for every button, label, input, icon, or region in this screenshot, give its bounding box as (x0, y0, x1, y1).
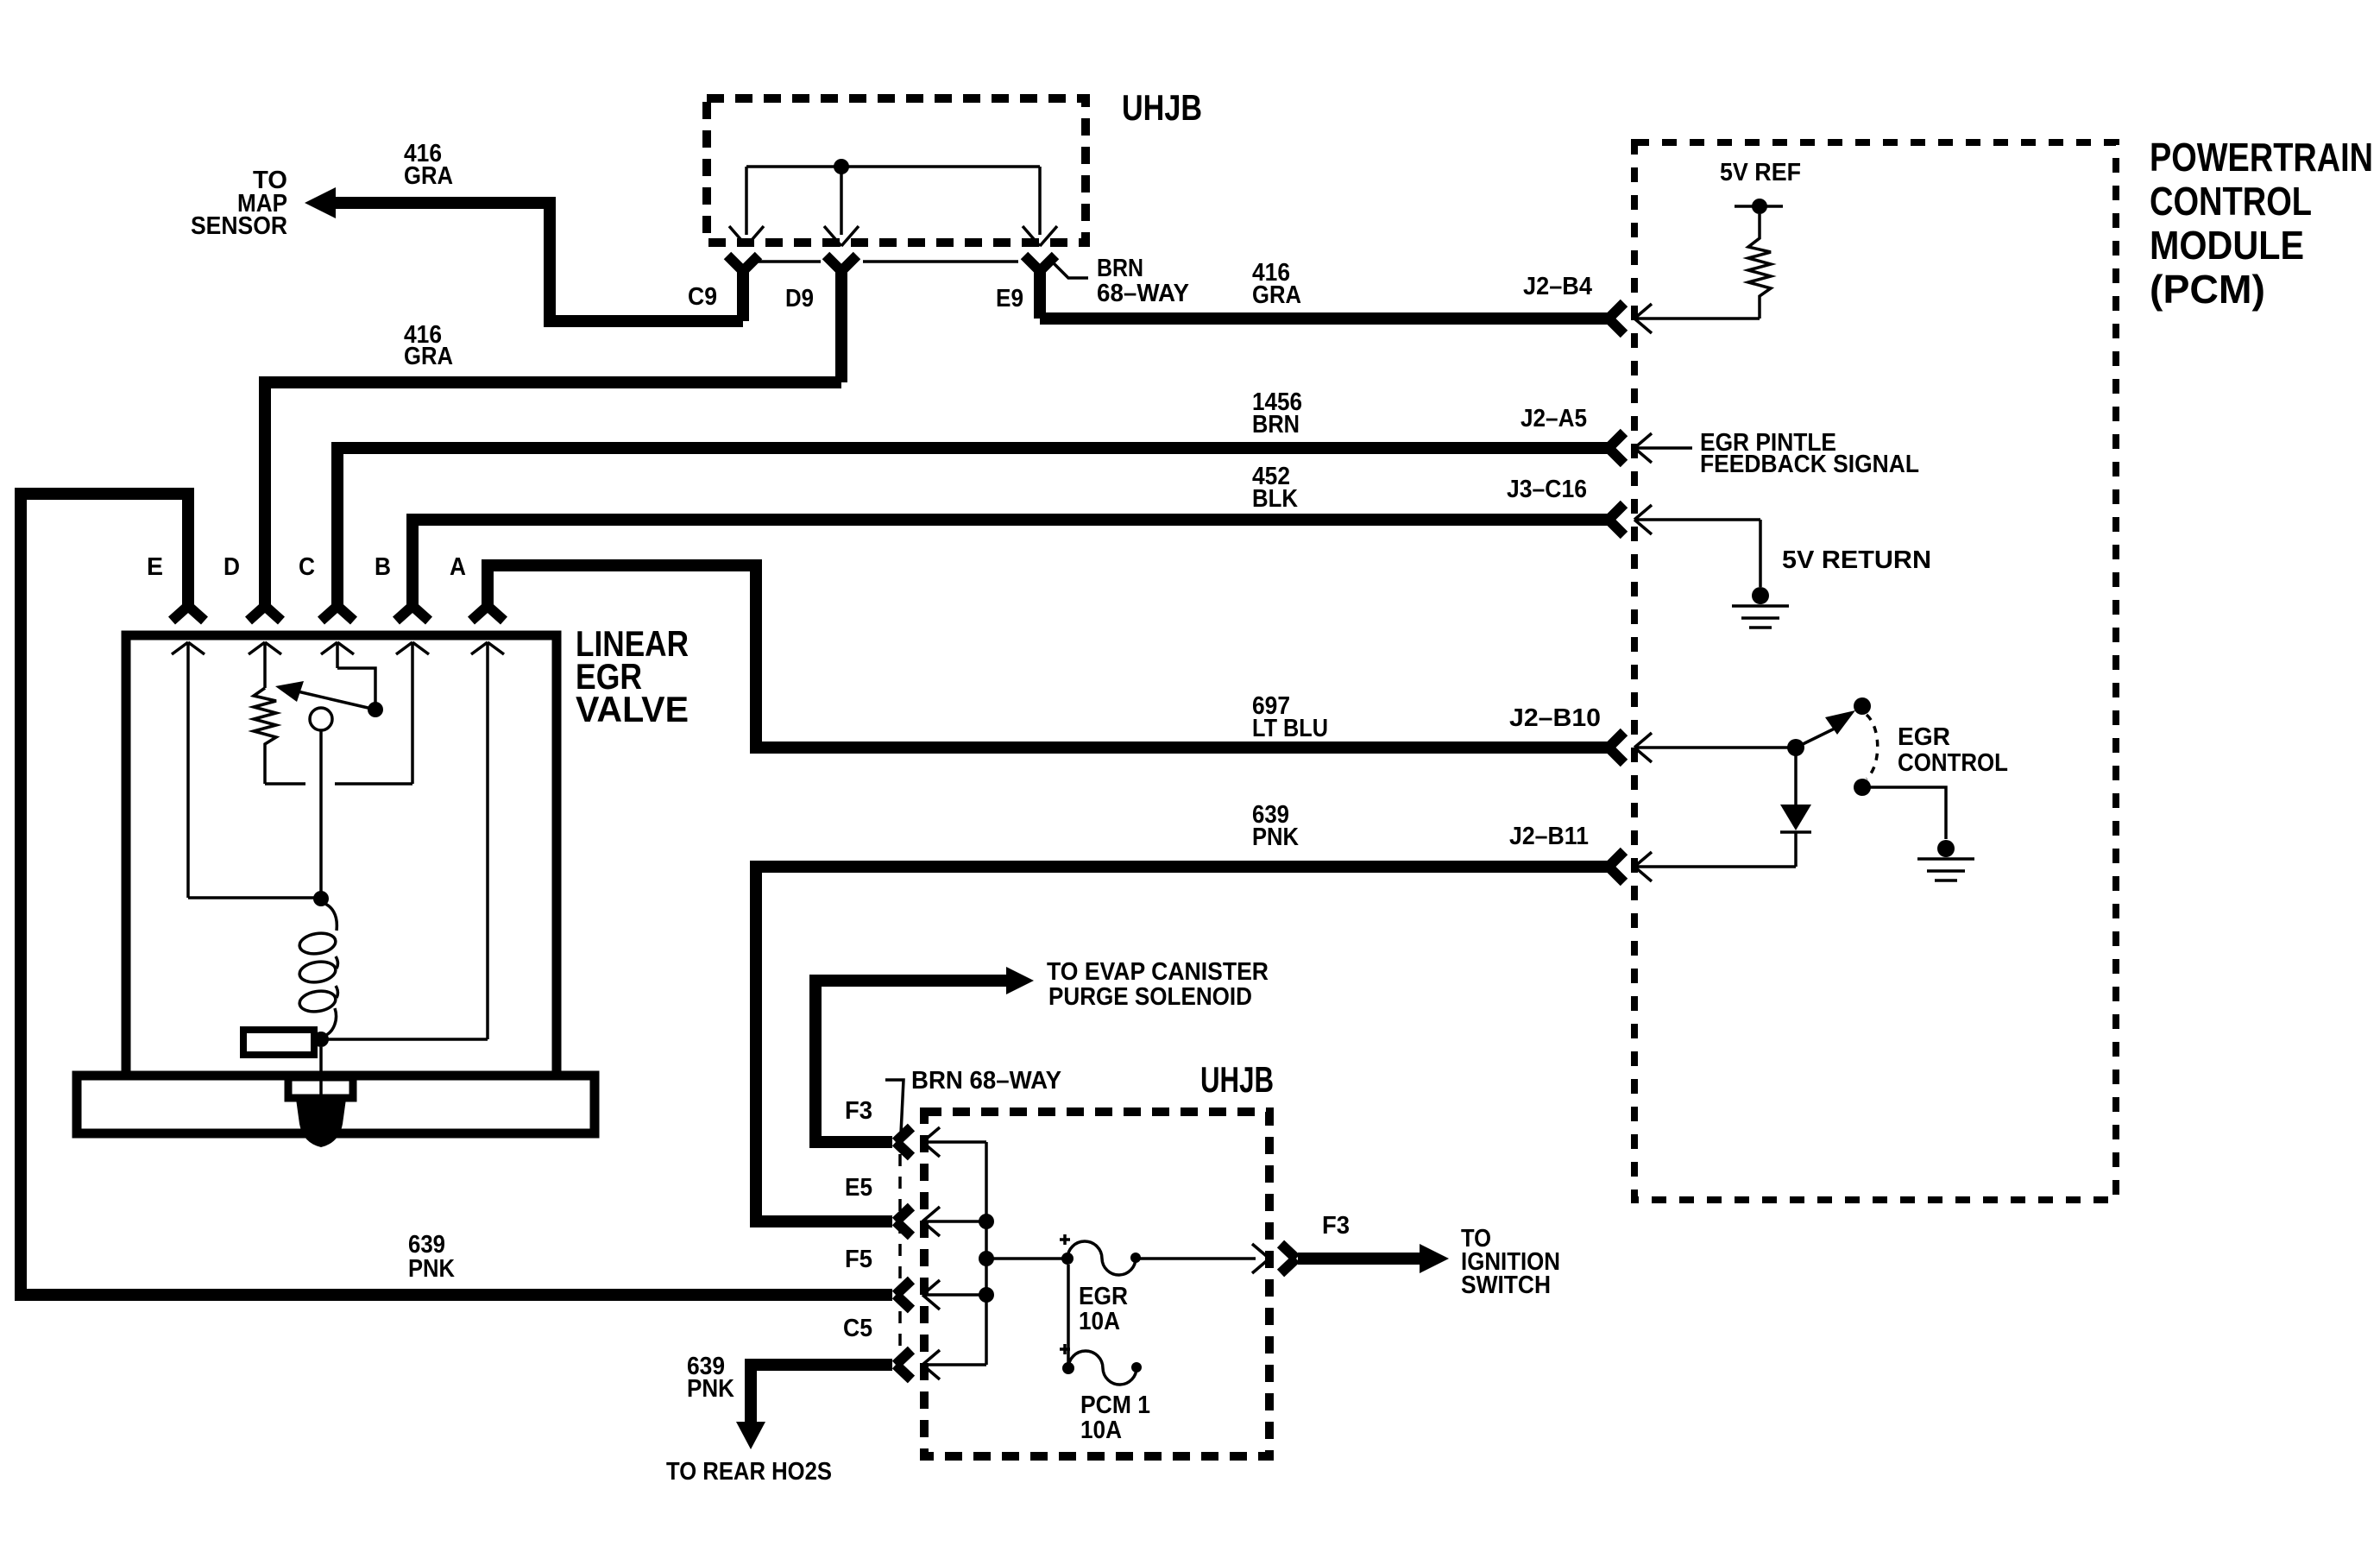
node bus-E5 (979, 1214, 994, 1229)
svg-text:E5: E5 (845, 1174, 872, 1202)
pintle dome (296, 1099, 346, 1147)
node EGR control common (1787, 739, 1804, 756)
leader BRN 68-WAY (bottom) (885, 1080, 904, 1152)
svg-text:UHJB: UHJB (1200, 1059, 1274, 1100)
connector chevron F5 (896, 1280, 911, 1309)
svg-text:C9: C9 (688, 283, 717, 311)
node bus-fuse (979, 1251, 994, 1266)
fuse EGR 10A (1060, 1234, 1141, 1275)
leader BRN 68-WAY (top) (1048, 257, 1088, 278)
svg-text:J2–A5: J2–A5 (1521, 405, 1587, 432)
svg-text:GRA: GRA (1252, 281, 1301, 309)
wire 5V RETURN (1759, 520, 1762, 587)
connector pin B crow's foot (396, 606, 429, 621)
svg-text:5V RETURN: 5V RETURN (1782, 546, 1931, 574)
svg-text:BLK: BLK (1252, 485, 1298, 513)
svg-text:GRA: GRA (404, 343, 453, 370)
wire bus to EGR fuse (986, 1257, 1067, 1260)
label TO MAP SENSOR (191, 167, 287, 240)
svg-text:E9: E9 (996, 285, 1023, 312)
wire 639 PNK from PCM J2-B11 to UHJB E5 (756, 867, 1610, 1221)
svg-text:CONTROL: CONTROL (1898, 749, 2008, 777)
wire link D9-E9 (863, 260, 1018, 263)
connector chevron F3 out (1281, 1244, 1296, 1273)
label POWERTRAIN CONTROL MODULE (PCM) (2150, 135, 2373, 312)
node bus-F5 (979, 1287, 994, 1303)
label 416 GRA (J2-B4 wire) (1252, 259, 1301, 309)
armature bar (243, 1030, 314, 1055)
pin arrow A (inside valve) (471, 642, 504, 1039)
connector chevron E5 (896, 1207, 911, 1236)
svg-text:J3–C16: J3–C16 (1507, 476, 1587, 503)
wire bottom junction to pin A (321, 1038, 488, 1041)
pin arrow J2-A5 (1634, 433, 1692, 463)
wire 416 GRA from D9 to EGR valve pin D (265, 382, 841, 607)
LINEAR EGR VALVE body (126, 635, 557, 1076)
resistor (5V REF pull-up) (1748, 214, 1771, 319)
svg-text:D9: D9 (785, 285, 814, 312)
node shaft junction (bottom) (313, 1032, 329, 1047)
wire lower contact to ground (1862, 787, 1946, 839)
pin arrow D (inside valve) (249, 642, 281, 688)
pin arrow J2-B10 (1634, 733, 1796, 762)
fuse PCM 1 10A (1060, 1344, 1142, 1385)
svg-text:TO EVAP CANISTER: TO EVAP CANISTER (1047, 958, 1269, 986)
connector chevron F3 (896, 1127, 911, 1157)
label 416 GRA (MAP wire) (404, 140, 453, 190)
connector chevron C5 (896, 1350, 911, 1379)
svg-text:E: E (147, 553, 163, 581)
label 639 PNK (J2-B11) (1252, 801, 1299, 851)
pin arrow B (inside valve) (396, 642, 429, 784)
wire wiper shaft (319, 730, 323, 899)
svg-text:TO REAR HO2S: TO REAR HO2S (666, 1458, 832, 1486)
svg-text:C5: C5 (843, 1315, 872, 1342)
wire 697 LT BLU from EGR valve pin A to PCM J2-B10 (488, 565, 1610, 748)
connector chevron at PCM J2-A5 (1609, 432, 1624, 464)
node switch contact (lower) (1854, 779, 1871, 796)
label EGR 10A (1079, 1283, 1128, 1335)
label 416 GRA (D9 wire) (404, 321, 453, 370)
svg-text:FEEDBACK SIGNAL: FEEDBACK SIGNAL (1700, 451, 1919, 478)
pin arrow into E9 (1023, 226, 1057, 246)
wire 416 GRA from E9 to PCM J2-B4 (1040, 312, 1610, 325)
svg-text:UHJB: UHJB (1122, 87, 1202, 128)
wire 639 PNK from UHJB C5 to rear HO2S (736, 1365, 892, 1449)
wire C to wiper (337, 668, 375, 710)
pin arrow J3-C16 (1634, 505, 1760, 534)
ground (5V RETURN) (1732, 587, 1789, 628)
svg-text:LT BLU: LT BLU (1252, 715, 1328, 742)
svg-text:POWERTRAIN: POWERTRAIN (2150, 135, 2373, 180)
svg-text:F3: F3 (845, 1097, 872, 1125)
wire link C9-D9 (758, 260, 821, 263)
svg-text:BRN: BRN (1252, 411, 1300, 439)
svg-text:MODULE: MODULE (2150, 223, 2304, 268)
svg-text:BRN: BRN (1097, 255, 1143, 282)
connector pin E crow's foot (172, 606, 205, 621)
svg-text:5V REF: 5V REF (1720, 159, 1801, 186)
svg-text:F5: F5 (845, 1246, 872, 1273)
svg-text:SWITCH: SWITCH (1461, 1272, 1551, 1299)
label PCM 1 10A (1080, 1391, 1150, 1444)
wire left bus 639 PNK: EGR valve pin E to UHJB F5 (21, 494, 892, 1295)
svg-text:10A: 10A (1080, 1417, 1122, 1444)
wire internal bus (bottom UHJB) (985, 1142, 988, 1365)
UHJB junction block (bottom) dashed box (924, 1112, 1269, 1456)
wire 416 GRA to MAP sensor (305, 187, 743, 321)
node junction dot (top UHJB bus) (834, 159, 849, 174)
svg-text:10A: 10A (1079, 1308, 1120, 1335)
svg-text:B: B (375, 553, 391, 581)
label EGR CONTROL (1898, 723, 2008, 777)
wire 1456 BRN from EGR valve pin C to PCM J2-A5 (337, 448, 1610, 607)
svg-text:A: A (450, 553, 466, 581)
svg-text:PNK: PNK (687, 1375, 734, 1403)
connector pin D crow's foot (249, 606, 281, 621)
pin arrow F5 (922, 1280, 986, 1309)
wire F3 to ignition switch (1298, 1244, 1449, 1273)
wiper pivot circle (310, 708, 332, 730)
wire shaft to pintle (319, 1047, 323, 1105)
label 1456 BRN (1252, 388, 1302, 439)
label TO IGNITION SWITCH (1461, 1225, 1560, 1299)
pin arrow C5 (922, 1350, 986, 1379)
connector pin C crow's foot (321, 606, 354, 621)
svg-text:(PCM): (PCM) (2150, 267, 2265, 312)
dashed connector line (bottom UHJB) (898, 1154, 902, 1353)
svg-text:PURGE SOLENOID: PURGE SOLENOID (1048, 983, 1252, 1011)
svg-text:68–WAY: 68–WAY (1097, 280, 1189, 307)
svg-text:C: C (299, 553, 315, 581)
svg-text:CONTROL: CONTROL (2150, 179, 2312, 224)
label 639 PNK (F5 wire) (408, 1231, 455, 1283)
connector D9 crow's foot (826, 256, 857, 382)
pin arrow F3 out (1252, 1244, 1269, 1273)
svg-text:GRA: GRA (404, 162, 453, 190)
node wiper junction (368, 702, 383, 717)
wire EGR fuse to F3 output (1136, 1257, 1256, 1260)
node 5V REF tap (1735, 199, 1783, 214)
pin arrow into C9 (729, 226, 764, 246)
label EGR PINTLE FEEDBACK SIGNAL (1700, 429, 1919, 478)
pin arrow C (inside valve) (321, 642, 354, 668)
pin arrow F3 (922, 1127, 986, 1157)
svg-text:VALVE: VALVE (576, 689, 689, 729)
node switch contact (upper) (1854, 697, 1871, 715)
label TO EVAP CANISTER PURGE SOLENOID (1047, 958, 1269, 1011)
wire EGR fuse feed down (1067, 1265, 1070, 1368)
label LINEAR EGR VALVE (576, 623, 689, 729)
wire pot bottom (265, 782, 412, 786)
svg-text:PCM 1: PCM 1 (1080, 1391, 1150, 1419)
dashed travel arc (1867, 715, 1878, 779)
pin arrow E (inside valve) (172, 642, 205, 898)
pin arrow J2-B11 (1634, 852, 1796, 881)
diode D1 (1780, 755, 1811, 867)
wire internal bus C9-D9-E9 (746, 167, 1040, 235)
pin arrow into D9 (824, 226, 859, 246)
svg-text:F3: F3 (1322, 1212, 1350, 1240)
connector chevron at PCM J2-B11 (1609, 851, 1624, 882)
svg-text:BRN 68–WAY: BRN 68–WAY (911, 1067, 1061, 1095)
wire E to shaft (188, 896, 321, 899)
wire EVAP branch to UHJB F3 (815, 967, 1034, 1142)
label BRN 68-WAY (top) (1097, 255, 1189, 307)
connector E9 crow's foot (1024, 256, 1055, 319)
svg-text:SENSOR: SENSOR (191, 212, 287, 240)
connector chevron at PCM J2-B4 (1609, 303, 1624, 334)
label 452 BLK (1252, 463, 1298, 513)
svg-text:D: D (224, 553, 240, 581)
wiper arrow (275, 681, 375, 710)
pin arrow E5 (922, 1207, 986, 1236)
svg-text:EGR: EGR (1898, 723, 1950, 751)
node shaft junction (top) (313, 891, 329, 906)
connector pin A crow's foot (471, 606, 504, 621)
pintle hat (288, 1077, 353, 1098)
svg-text:PNK: PNK (408, 1255, 455, 1283)
LINEAR EGR VALVE flange (77, 1076, 595, 1133)
svg-text:J2–B10: J2–B10 (1509, 704, 1601, 732)
PCM dashed box (1634, 142, 2116, 1200)
svg-text:J2–B4: J2–B4 (1523, 273, 1592, 300)
connector chevron at PCM J2-B10 (1609, 732, 1624, 763)
connector C9 crow's foot (727, 256, 759, 321)
switch arm (EGR control) (1796, 710, 1855, 748)
ground (EGR control) (1917, 840, 1974, 880)
label 697 LT BLU (1252, 692, 1328, 742)
UHJB junction block (top) dashed box (707, 98, 1086, 243)
wire 452 BLK from EGR valve pin B to PCM J3-C16 (412, 520, 1610, 607)
resistor (EGR position sensor) (254, 688, 276, 784)
svg-text:EGR: EGR (1079, 1283, 1128, 1310)
connector chevron at PCM J3-C16 (1609, 504, 1624, 535)
svg-text:PNK: PNK (1252, 824, 1299, 851)
svg-text:J2–B11: J2–B11 (1509, 823, 1589, 850)
pin arrow J2-B4 (1634, 304, 1760, 333)
solenoid coil (298, 902, 337, 1037)
pin letters E D C B A (147, 553, 466, 581)
label 639 PNK (C5 wire) (687, 1353, 734, 1403)
